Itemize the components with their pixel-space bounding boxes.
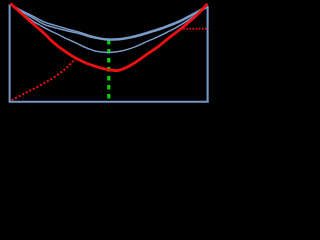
dotted rising component curve <box>12 59 77 100</box>
blue curve 3 (deep) <box>11 4 207 52</box>
y-axis left <box>9 5 11 103</box>
x-axis bottom <box>9 101 209 103</box>
dotted horizontal right segment <box>183 28 209 30</box>
red total curve <box>11 4 208 71</box>
blue curve 2 (middle) <box>11 4 207 40</box>
blue curve 1 (top) <box>11 4 207 39</box>
y-axis right <box>207 6 209 102</box>
green dashed vertical optimum line <box>107 40 110 99</box>
